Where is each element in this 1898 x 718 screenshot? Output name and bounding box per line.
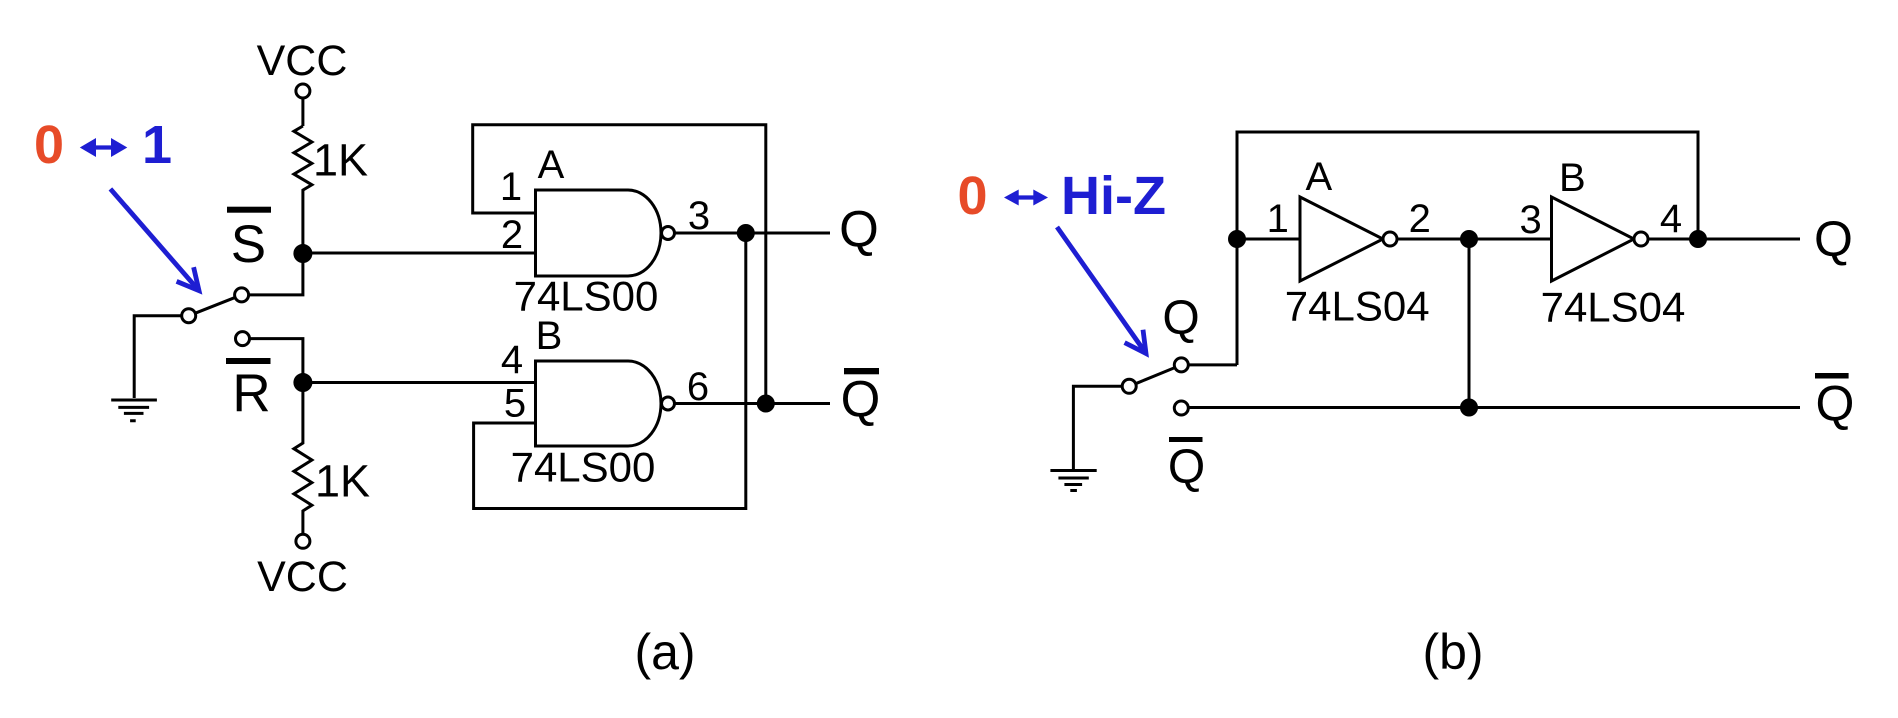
- annotation arrow-glyph (circuit a): [80, 138, 128, 157]
- wire: feedback Qbar to gate A pin 1 (top loop): [473, 125, 766, 404]
- wire: inverter A output pin 2 to node: [1397, 238, 1469, 241]
- svg-text:S: S: [231, 215, 266, 274]
- wire: node to inverter B pin 3: [1469, 238, 1552, 241]
- svg-text:74LS00: 74LS00: [514, 273, 659, 320]
- svg-text:B: B: [1559, 156, 1586, 200]
- node Qbar junction dot (circuit a): [758, 396, 773, 411]
- NAND gate U1B 74LS00: [536, 361, 662, 446]
- switch lever (circuit b): [1137, 368, 1174, 383]
- wire: node to inverter A pin 1: [1237, 238, 1300, 241]
- terminal VCC (bottom, circuit a): [296, 534, 310, 548]
- svg-text:0: 0: [957, 166, 987, 226]
- node S junction dot: [295, 246, 311, 262]
- switch pole (circuit a): [182, 309, 196, 323]
- switch contact Qbar (circuit b): [1174, 401, 1188, 415]
- node Qbar junction dot (circuit b): [1462, 400, 1477, 415]
- svg-text:1K: 1K: [313, 135, 368, 186]
- wire: S node to gate A pin 2: [303, 252, 536, 255]
- node pin1 junction dot (circuit b): [1230, 232, 1245, 247]
- wire: output to Q (circuit b): [1698, 238, 1800, 241]
- node pin2-pin3 junction dot (circuit b): [1462, 232, 1477, 247]
- wire: Qbar line (circuit b): [1188, 406, 1800, 409]
- svg-text:Q: Q: [841, 371, 881, 428]
- svg-text:4: 4: [501, 338, 523, 382]
- wire: R node to gate B pin 4: [303, 381, 536, 384]
- svg-text:B: B: [536, 314, 563, 358]
- node pin4 output junction dot (circuit b): [1691, 232, 1706, 247]
- switch label Qbar (circuit b): [1169, 437, 1203, 442]
- wire: feedback Q to gate B pin 5 (bottom loop): [474, 233, 746, 509]
- wire: S node down to switch upper contact: [250, 254, 303, 295]
- ground symbol (circuit a): [111, 400, 157, 421]
- svg-text:74LS04: 74LS04: [1541, 284, 1686, 331]
- wire: gate B output to Qbar: [675, 402, 831, 405]
- svg-text:Q: Q: [839, 200, 879, 257]
- svg-text:74LS04: 74LS04: [1285, 283, 1430, 330]
- annotation arrow (blue, circuit a): [110, 189, 199, 291]
- svg-text:2: 2: [501, 213, 523, 257]
- ground symbol (circuit b): [1050, 471, 1096, 491]
- annotation arrow-glyph (circuit b): [1004, 190, 1048, 206]
- svg-text:Q: Q: [1162, 292, 1199, 345]
- svg-text:Hi-Z: Hi-Z: [1061, 166, 1166, 226]
- bubble gate A: [662, 227, 675, 240]
- svg-text:4: 4: [1660, 197, 1682, 241]
- switch contact R (circuit a): [236, 332, 250, 346]
- wire: inverter B output pin 4: [1648, 238, 1698, 241]
- svg-text:1: 1: [1267, 197, 1289, 241]
- bubble gate B: [662, 397, 675, 410]
- svg-text:VCC: VCC: [257, 553, 348, 601]
- svg-text:VCC: VCC: [257, 37, 348, 85]
- svg-text:0: 0: [34, 115, 64, 175]
- svg-text:6: 6: [687, 365, 709, 409]
- resistor 1K (lower, circuit a): [294, 383, 312, 535]
- svg-text:1: 1: [142, 115, 172, 175]
- wire: switch pole to ground (circuit a): [134, 316, 181, 398]
- svg-text:3: 3: [1519, 198, 1541, 242]
- switch contact Q (circuit b): [1174, 358, 1188, 372]
- bubble inverter A: [1383, 232, 1397, 246]
- output label Qbar (circuit b): [1815, 373, 1849, 379]
- svg-text:1: 1: [500, 165, 522, 209]
- wire: switch lower contact to R node: [250, 339, 303, 383]
- inverter U2A 74LS04: [1300, 197, 1383, 281]
- svg-text:1K: 1K: [315, 456, 370, 507]
- svg-text:A: A: [1306, 155, 1333, 199]
- svg-text:Q: Q: [1816, 376, 1855, 432]
- svg-text:2: 2: [1409, 197, 1431, 241]
- wire: gate A output to Q: [675, 232, 831, 235]
- wire: top feedback (circuit b): [1237, 132, 1698, 365]
- resistor 1K (upper, circuit a): [294, 126, 312, 254]
- wire: VCC stub + resistor lead (top, circuit a): [301, 99, 304, 127]
- net label R (with overbar): [226, 358, 271, 364]
- svg-text:Q: Q: [1168, 441, 1205, 494]
- svg-text:(a): (a): [634, 624, 695, 680]
- svg-text:(b): (b): [1422, 624, 1483, 680]
- node R junction dot: [295, 375, 311, 391]
- switch pole (circuit b): [1122, 379, 1136, 393]
- svg-text:74LS00: 74LS00: [511, 444, 656, 491]
- svg-text:5: 5: [504, 382, 526, 426]
- svg-text:3: 3: [688, 194, 710, 238]
- svg-text:Q: Q: [1814, 211, 1853, 267]
- inverter U2B 74LS04: [1552, 197, 1635, 281]
- net label S (with overbar): [227, 207, 271, 213]
- svg-text:R: R: [232, 364, 270, 423]
- bubble inverter B: [1634, 232, 1648, 246]
- wire: mid node down to Qbar line (circuit b): [1468, 239, 1471, 408]
- switch lever (circuit a): [196, 298, 234, 313]
- annotation arrow (blue, circuit b): [1057, 227, 1146, 354]
- NAND gate U1A 74LS00: [536, 190, 662, 276]
- node Q junction dot (circuit a): [738, 226, 753, 241]
- wire: switch pole to ground (circuit b): [1073, 386, 1122, 469]
- svg-text:A: A: [538, 143, 565, 187]
- output label Qbar (circuit a): [844, 368, 879, 374]
- terminal VCC (top, circuit a): [296, 84, 310, 98]
- switch contact S (circuit a): [235, 288, 249, 302]
- wire: switch upper contact to feedback vertical (circuit b): [1188, 363, 1237, 366]
